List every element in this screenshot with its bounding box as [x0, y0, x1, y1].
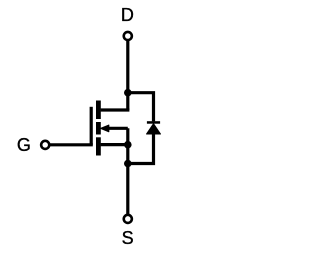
diode D1 cathode bar	[147, 121, 160, 124]
svg-text:G: G	[17, 135, 31, 155]
wire diode bottom branch	[128, 134, 154, 164]
transistor Q1 channel bar top	[96, 101, 101, 120]
transistor Q1 body arrow	[101, 125, 109, 132]
transistor Q1 channel bar bottom	[96, 137, 101, 155]
terminal D	[124, 32, 132, 40]
wire drain vertical	[126, 40, 129, 110]
transistor Q1 channel bar middle	[96, 122, 101, 135]
svg-text:S: S	[122, 228, 134, 248]
wire drain branch to diode	[128, 93, 154, 122]
node diode return junction	[124, 160, 132, 168]
diode D1 anode triangle	[147, 124, 161, 134]
transistor Q1 gate electrode	[90, 107, 93, 145]
wire gate lead	[49, 143, 93, 146]
node source junction	[124, 141, 132, 149]
wire source vertical	[126, 128, 129, 215]
svg-text:D: D	[121, 5, 134, 25]
wire body to source	[108, 127, 128, 130]
wire drain stub to channel	[101, 108, 130, 111]
node drain junction	[124, 89, 132, 97]
terminal G	[41, 141, 49, 149]
wire source stub from channel	[101, 143, 128, 146]
terminal S	[124, 215, 132, 223]
